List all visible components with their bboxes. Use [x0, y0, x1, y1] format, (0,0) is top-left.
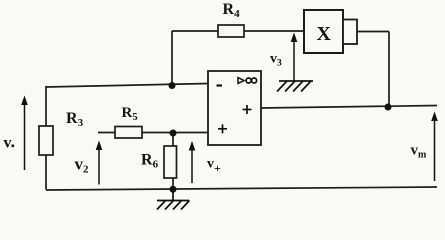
wire top feedback horizontal to R4 and X input: [172, 30, 304, 32]
op-amp plus input label: [218, 124, 227, 133]
resistor R6: [164, 146, 177, 178]
op-amp infinity symbol: [246, 78, 257, 83]
resistor R3: [39, 126, 53, 155]
node non-inverting input junction: [170, 130, 177, 137]
resistor R5: [115, 127, 142, 139]
wire vertical from R4 branch down to inverting node: [171, 31, 173, 85]
wire op-amp output to vm: [261, 106, 437, 109]
ground at v3: [277, 81, 313, 92]
node inverting input junction: [169, 82, 176, 89]
node output junction: [385, 104, 392, 111]
svg-text:v: v: [4, 135, 12, 152]
arrow voltage v- left input: [21, 96, 28, 171]
wire vertical branch with R6: [172, 133, 174, 190]
op-amp minus input label: [217, 84, 223, 86]
wire non-inverting input horizontal from v2 through R5: [98, 132, 208, 134]
node ground junction on bottom rail: [170, 186, 177, 193]
multiplier X block: [304, 10, 343, 53]
wire left vertical branch with R3: [45, 86, 47, 190]
multiplier X output port box: [343, 20, 357, 45]
arrow voltage vm: [431, 112, 438, 182]
arrow voltage v2: [96, 141, 103, 185]
resistor R4: [218, 25, 244, 37]
op-amp ideal gain triangle symbol: [238, 78, 244, 84]
arrow voltage v3: [291, 33, 298, 82]
svg-text:X: X: [317, 23, 332, 45]
wire inverting input horizontal: [46, 84, 208, 88]
op-amp output plus label: [243, 105, 252, 114]
op-amp U1 body: [208, 71, 261, 145]
wire X output horizontal: [357, 31, 389, 33]
wire X output vertical down to output node: [388, 32, 390, 108]
arrow voltage v+: [189, 141, 196, 183]
wire bottom rail: [46, 187, 437, 190]
ground below R6: [157, 189, 190, 210]
